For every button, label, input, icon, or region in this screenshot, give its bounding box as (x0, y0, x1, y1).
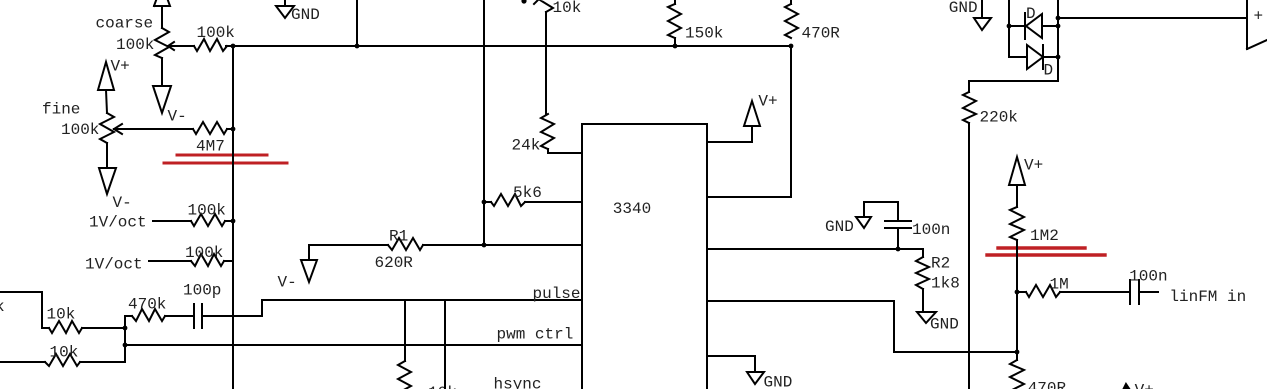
svg-text:1M2: 1M2 (1030, 227, 1059, 245)
svg-text:GND: GND (764, 374, 793, 389)
wire 150k to bus (674, 38, 676, 46)
junction node (R1 / vertical) (482, 243, 487, 248)
potentiometer fine 100k (body) (100, 113, 114, 143)
wire input row (left edge) (0, 292, 42, 328)
wire R1 row to IC (484, 244, 582, 246)
svg-text:100p: 100p (183, 282, 221, 300)
resistor 100k (1V/oct input 1) (191, 214, 225, 226)
svg-text:D: D (1026, 5, 1036, 23)
power arrow V- (below fine pot) (99, 168, 116, 194)
junction node (4M7 / bus) (231, 127, 236, 132)
svg-text:100k: 100k (61, 121, 99, 139)
svg-text:fine: fine (42, 101, 80, 119)
svg-text:GND: GND (291, 6, 320, 24)
wire cap bracket to GND (864, 202, 898, 217)
ground GND (timing cap) (856, 217, 871, 228)
wire stub from top edge to bus (356, 0, 358, 46)
potentiometer coarse 100k (body) (155, 28, 169, 58)
wire diode network to 220k (969, 57, 1058, 92)
svg-text:V-: V- (278, 274, 297, 292)
resistor 4M7 (fine wiper to expo bus) (193, 122, 227, 134)
svg-text:100k: 100k (185, 244, 223, 262)
svg-text:3340: 3340 (613, 200, 651, 218)
wire cap to pulse step (204, 300, 262, 316)
resistor 100k (coarse wiper to expo bus) (194, 39, 227, 51)
red annotation line 4 (under 1M2) (987, 253, 1105, 256)
wire 10k-1 stub left (42, 327, 49, 329)
resistor 10k (lower) (45, 354, 80, 366)
junction dot fragment (top edge, scale trim) (521, 0, 526, 4)
svg-text:100k: 100k (188, 202, 226, 220)
junction node (right rail / D2) (1056, 55, 1061, 60)
ground GND (top right) (981, 0, 983, 18)
svg-text:5k6: 5k6 (513, 184, 542, 202)
wire diode right rail (1057, 0, 1059, 57)
wire fine pot bottom (106, 143, 108, 168)
svg-text:linFM in: linFM in (1169, 288, 1246, 306)
red annotation line 3 (under 1M2) (998, 246, 1085, 249)
svg-text:V+: V+ (758, 93, 777, 111)
junction node (stub / bus) (355, 44, 360, 49)
resistor 470R (785, 4, 798, 38)
wire junction column (124, 328, 126, 362)
wire 1M left (1017, 291, 1026, 293)
svg-text:220k: 220k (980, 109, 1018, 127)
svg-text:k: k (0, 298, 5, 316)
red annotation line 2 (under 4M7) (164, 162, 287, 165)
junction node (left rail / D1) (1007, 24, 1012, 29)
capacitor 100p (193, 304, 195, 328)
wire V+ to 1M2 (1016, 185, 1018, 207)
resistor 10k (scale trim, clipped at top) (540, 0, 553, 12)
svg-text:1V/oct: 1V/oct (89, 214, 147, 232)
diode D1 (upper, cathode left) (1009, 25, 1025, 27)
resistor R2 1k8 (916, 257, 929, 289)
svg-text:coarse: coarse (96, 15, 154, 33)
resistor R1 620R (388, 238, 423, 250)
svg-text:pulse: pulse (533, 285, 581, 303)
wire 10k-2 right (80, 361, 125, 363)
svg-text:1M: 1M (1050, 276, 1069, 294)
svg-text:10k: 10k (553, 0, 582, 17)
wire drop A from pulse row (404, 300, 406, 361)
wire r to bus 2 (224, 260, 233, 262)
power arrow V+ (IC supply) (744, 101, 760, 126)
op-amp comparator (clipped at right edge) (1246, 0, 1248, 49)
power arrow V- (R1) (301, 260, 317, 282)
junction node (right rail / D1) (1056, 24, 1061, 29)
junction node (1V/oct 1 / bus) (231, 219, 236, 224)
wire 10k-1 to junction (82, 327, 125, 329)
junction node (bus top / 100k) (231, 44, 236, 49)
svg-text:10k: 10k (50, 344, 79, 362)
svg-text:V+: V+ (1024, 157, 1043, 175)
wire 220k down (off bottom) (968, 123, 970, 389)
svg-text:V+: V+ (1135, 382, 1154, 389)
wire coarse pot top (161, 6, 163, 28)
capacitor 100n (linFM) (1129, 280, 1131, 304)
svg-text:24k: 24k (512, 137, 541, 155)
wire 10k-2 left (0, 361, 45, 363)
svg-text:hsync: hsync (494, 376, 542, 389)
red annotation line 1 (under 4M7) (177, 154, 267, 157)
svg-text:V-: V- (113, 194, 132, 212)
ground GND (top left) (284, 0, 286, 6)
wire 10k to 24k (545, 12, 547, 114)
wire 1V/oct-1 (153, 220, 191, 222)
power arrow V+ (above fine pot) (98, 62, 114, 90)
junction node (100n / pin3) (896, 247, 901, 252)
resistor 24k (541, 114, 554, 149)
wire coarse pot bottom (161, 58, 163, 86)
diode D2 (lower, cathode right) (1027, 45, 1043, 69)
wire 5k6 left (484, 201, 491, 203)
wire 1M to cap (1060, 291, 1129, 293)
wire junction to 470R (1016, 352, 1018, 360)
junction node (10k-1 / 470k) (123, 326, 128, 331)
svg-text:10k: 10k (47, 306, 76, 324)
wire 470k to cap (165, 315, 194, 317)
wire 4M7 to node (227, 128, 233, 130)
wire IC pin2 right to 470R (708, 196, 791, 198)
wire IC pin3 right (708, 248, 923, 250)
svg-text:470k: 470k (128, 296, 166, 314)
wire 100k to node (226, 45, 233, 47)
resistor 470k (132, 309, 165, 321)
svg-text:GND: GND (930, 316, 959, 334)
junction node (5k6 tap) (482, 200, 487, 205)
svg-text:GND: GND (825, 218, 854, 236)
wire V+ to fine pot (106, 90, 107, 113)
svg-text:1V/oct: 1V/oct (85, 256, 143, 274)
junction node (right rail / comparator tap) (1056, 16, 1061, 21)
power arrow V+ (1M2) (1009, 157, 1025, 185)
svg-text:470R: 470R (802, 25, 841, 43)
wire IC pin V+ (pin1 right) (708, 126, 752, 142)
wiper arrow fragment (scale trim, clipped) (534, 0, 540, 4)
svg-text:4M7: 4M7 (196, 138, 225, 156)
resistor 1M2 (1010, 207, 1024, 240)
svg-text:150k: 150k (685, 25, 723, 43)
capacitor 100n (timing) (885, 220, 911, 222)
wire cap to label (1140, 291, 1158, 293)
svg-text:100n: 100n (912, 221, 950, 239)
svg-text:GND: GND (949, 0, 978, 17)
wire 5k6 to IC (525, 201, 582, 203)
junction node (pwm tap) (123, 343, 128, 348)
ground GND (R2) (917, 312, 936, 323)
op-amp U1 CEM3340 (IC body) (582, 124, 707, 389)
resistor 5k6 (491, 194, 525, 206)
wire 1V/oct-2 (149, 260, 191, 262)
wire 1M2 to node (1016, 240, 1018, 292)
ground GND (pin5) (747, 372, 764, 384)
wire 470R junction down to IC pin (790, 46, 792, 197)
svg-text:V+: V+ (111, 58, 130, 76)
svg-text:R1: R1 (389, 228, 408, 246)
wire to comparator + (1058, 17, 1247, 19)
wire pwm ctrl row (125, 344, 582, 346)
svg-text:470R: 470R (1028, 380, 1067, 389)
resistor 10k (drop A, clipped at bottom) (398, 361, 411, 389)
svg-text:V-: V- (168, 108, 187, 126)
junction node (150k / bus) (673, 44, 678, 49)
svg-text:100n: 100n (1129, 268, 1167, 286)
svg-text:100k: 100k (197, 24, 235, 42)
resistor 1M (1026, 285, 1060, 297)
wire 24k to IC pin (548, 149, 582, 153)
wire r to bus 1 (225, 220, 233, 222)
wire node down (1016, 292, 1018, 352)
resistor 470R (bottom, clipped) (1010, 360, 1024, 389)
svg-text:+: + (1254, 8, 1264, 26)
wire R2 to GND (922, 289, 924, 312)
junction node (1M / 1M2) (1015, 290, 1020, 295)
wire R1 left to V- (309, 245, 388, 260)
svg-text:1k8: 1k8 (931, 275, 960, 293)
wire drop B from pulse row (444, 300, 446, 389)
svg-text:10k: 10k (428, 384, 457, 389)
junction node (pin4 / 470R bottom) (1015, 350, 1020, 355)
wire 470k jog (125, 316, 132, 328)
wire vertical from top edge (linearising) (483, 0, 485, 245)
wire pin3 corner to R2 (922, 249, 924, 257)
junction node (470R / bus end) (789, 44, 794, 49)
wire IC pin5 right (708, 356, 755, 372)
wire IC pin4 right (to linFM node) (708, 301, 1017, 352)
wire diode left rail (1009, 0, 1027, 57)
svg-text:100k: 100k (116, 36, 154, 54)
svg-text:620R: 620R (375, 254, 414, 272)
svg-text:D: D (1044, 62, 1054, 80)
power arrow V+ (top of coarse pot, clipped at top edge) (154, 0, 170, 6)
wire R1 right (423, 244, 484, 246)
resistor 220k (963, 92, 976, 123)
resistor 10k (upper) (49, 321, 82, 333)
wiper arrow of coarse pot (168, 45, 194, 47)
wire 150k top (clipped) (674, 0, 676, 4)
wire 470R top (clipped) (790, 0, 792, 4)
wiper arrow of fine pot (114, 128, 193, 130)
power arrow V+ (bottom right, clipped) (1123, 384, 1130, 389)
wire frequency-set bus (horizontal) (233, 45, 791, 47)
power arrow V- (below coarse pot) (153, 86, 171, 113)
wire expo summing bus (vertical) (232, 46, 234, 389)
wire pulse row (262, 299, 582, 301)
svg-text:R2: R2 (931, 255, 950, 273)
svg-text:pwm ctrl: pwm ctrl (497, 326, 574, 344)
resistor 100k (1V/oct input 2) (191, 254, 224, 266)
resistor 150k (668, 4, 681, 38)
